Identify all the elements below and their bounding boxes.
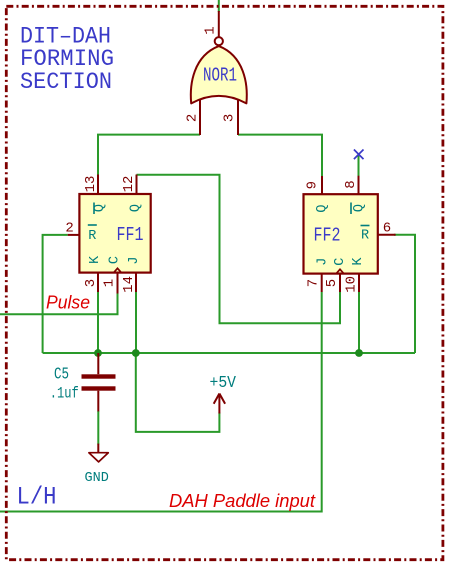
- flip-flop FF2: [304, 176, 396, 293]
- svg-text:1: 1: [203, 26, 219, 34]
- svg-text:9: 9: [305, 181, 321, 189]
- capacitor C5: [50, 353, 116, 411]
- body: [79, 194, 150, 273]
- top plate: [82, 374, 116, 378]
- wire FF1 pin3 to bus: [97, 292, 99, 353]
- svg-text:Q: Q: [129, 204, 144, 212]
- wire FF2 pin8 to no-connect: [358, 155, 360, 177]
- svg-text:NOR1: NOR1: [203, 65, 237, 87]
- pin 2 stub: [199, 100, 201, 136]
- svg-text:7: 7: [306, 279, 322, 287]
- pin 2 stub: [68, 234, 80, 236]
- wire C5 bottom to GND: [97, 411, 99, 444]
- svg-text:J: J: [127, 256, 142, 264]
- svg-text:C: C: [333, 258, 348, 266]
- pin 13 stub: [97, 175, 99, 195]
- svg-text:K: K: [88, 255, 103, 264]
- bottom stub: [97, 391, 99, 412]
- flip-flop FF1: [65, 175, 150, 294]
- svg-text:8: 8: [343, 180, 359, 188]
- svg-text:L/H: L/H: [17, 482, 57, 511]
- svg-text:DAH Paddle input: DAH Paddle input: [169, 490, 316, 511]
- pin 5 stub: [339, 274, 341, 292]
- pin 3 stub: [97, 273, 99, 292]
- svg-text:FF2: FF2: [314, 225, 341, 247]
- svg-text:10: 10: [344, 276, 360, 293]
- svg-text:+5V: +5V: [210, 374, 237, 393]
- pin 8 stub: [358, 176, 360, 195]
- ground symbol: [85, 444, 109, 486]
- svg-text:2: 2: [185, 114, 201, 122]
- gate body: [191, 46, 247, 103]
- wire DAH paddle input to FF2 pin7: [0, 292, 322, 512]
- pin 12 stub: [136, 175, 138, 195]
- svg-text:2: 2: [65, 221, 73, 237]
- svg-text:Q: Q: [315, 204, 330, 212]
- junction bus / +5V branch: [132, 349, 140, 357]
- svg-text:C5: C5: [54, 365, 69, 384]
- pin 1 stub: [218, 11, 220, 37]
- no-connect X on FF2 pin 8: [354, 150, 364, 160]
- wire Pulse input to FF1 pin1 clock: [0, 294, 118, 315]
- wire NOR1 pin2 to FF1 pin13: [98, 135, 200, 175]
- pin 3 stub: [237, 100, 239, 136]
- inversion bubble: [215, 37, 223, 45]
- svg-text:GND: GND: [85, 471, 109, 486]
- svg-text:K: K: [351, 257, 366, 266]
- svg-text:3: 3: [222, 114, 238, 122]
- power symbol +5V: [210, 374, 237, 413]
- body: [304, 194, 378, 273]
- svg-text:3: 3: [83, 279, 99, 287]
- arrow barb right: [219, 394, 225, 404]
- svg-text:J: J: [315, 258, 330, 266]
- pin 1 stub: [117, 273, 119, 294]
- wire NOR1 pin3 to FF2 pin9: [238, 135, 322, 176]
- pin 10 stub: [358, 274, 360, 292]
- pin 7 stub: [321, 274, 323, 292]
- svg-text:13: 13: [83, 176, 99, 193]
- wire bus right to FF2 pin6: [394, 235, 415, 353]
- title text DIT-DAH FORMING SECTION: [20, 24, 114, 95]
- pin 9 stub: [321, 176, 323, 194]
- wire bus to +5V arrow: [136, 353, 220, 432]
- wire FF1 pin14 to bus: [135, 292, 137, 353]
- svg-text:1: 1: [101, 279, 117, 287]
- arrow barb left: [214, 394, 220, 404]
- svg-text:.1uf: .1uf: [50, 385, 79, 403]
- gnd triangle: [89, 453, 108, 462]
- clock caret: [336, 269, 344, 274]
- wire FF1 pin2 reset to bus: [43, 235, 68, 353]
- svg-text:SECTION: SECTION: [20, 69, 112, 95]
- wire bus horizontal: [43, 352, 415, 354]
- pin 6 stub: [378, 234, 396, 236]
- svg-text:5: 5: [324, 279, 340, 287]
- arrow shaft: [218, 394, 220, 414]
- wire top to NOR1 pin 1: [218, 0, 220, 12]
- svg-text:FF1: FF1: [117, 224, 144, 246]
- svg-text:12: 12: [121, 176, 137, 193]
- svg-text:R: R: [361, 229, 369, 244]
- svg-text:14: 14: [121, 276, 137, 293]
- svg-text:C: C: [108, 256, 123, 264]
- top stub: [97, 353, 99, 374]
- NOR gate NOR1: [185, 11, 247, 135]
- junction bus / FF2 pin10: [355, 349, 363, 357]
- svg-text:Q: Q: [352, 204, 367, 212]
- pin 14 stub: [135, 273, 137, 292]
- clock caret: [113, 268, 121, 273]
- wire FF1 pin12 Q to FF2 pin5 clock: [137, 175, 341, 323]
- svg-text:Pulse: Pulse: [46, 292, 90, 313]
- svg-text:R: R: [88, 229, 96, 244]
- bottom plate: [82, 386, 116, 390]
- gnd stub: [97, 444, 99, 453]
- svg-text:6: 6: [383, 221, 391, 237]
- wire FF2 pin10 to bus: [358, 292, 360, 353]
- junction bus / C5: [94, 349, 102, 357]
